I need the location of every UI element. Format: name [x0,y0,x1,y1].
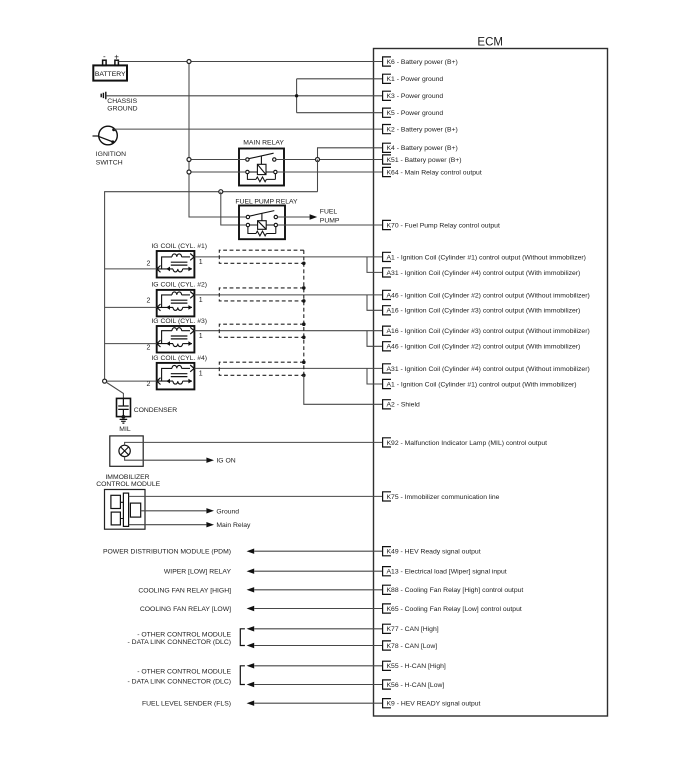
wire shield bus to A2 [304,375,383,404]
bracket DLC pair 1 [240,629,245,646]
wire relay output down [317,160,319,192]
node K51 junction [316,158,320,162]
wire coil 1 to A1 [194,256,382,258]
svg-text:CONDENSER: CONDENSER [134,407,178,414]
pin K9 bracket [383,699,391,708]
pin K51 bracket [383,155,391,164]
svg-text:1: 1 [199,297,203,304]
arrow COOLING FAN RELAY [LOW] [247,606,255,611]
pin K4 bracket [383,143,391,152]
coil 4 internals [157,365,194,385]
svg-text:A2 - Shield: A2 - Shield [387,402,420,409]
pin A1 bracket [383,252,391,261]
wire ignition feed bus [105,192,318,381]
svg-text:SWITCH: SWITCH [96,160,123,167]
coil 3 internals [157,327,194,347]
arrow CAN High [247,626,255,631]
pin K75 bracket [383,492,391,501]
svg-text:K49 - HEV Ready signal output: K49 - HEV Ready signal output [387,549,481,556]
svg-text:- OTHER CONTROL MODULE: - OTHER CONTROL MODULE [137,668,231,675]
svg-text:- DATA LINK CONNECTOR (DLC): - DATA LINK CONNECTOR (DLC) [128,639,231,646]
svg-text:K77 - CAN [High]: K77 - CAN [High] [387,626,439,633]
svg-text:A16 - Ignition Coil (Cylinder: A16 - Ignition Coil (Cylinder #3) contro… [387,328,590,335]
arrow FUEL LEVEL SENDER (FLS) [247,701,255,706]
node shield box 3 bottom [302,336,306,340]
ignition coil CYL 3 box [157,326,195,353]
shield box coil 2 [219,288,303,301]
svg-text:A16 - Ignition Coil (Cylinder: A16 - Ignition Coil (Cylinder #3) contro… [387,308,581,315]
wire FUEL LEVEL SENDER (FLS) to ECM [254,702,382,704]
wire coil 1 pin2 to bus [105,268,157,270]
svg-text:CONTROL MODULE: CONTROL MODULE [96,481,160,488]
svg-text:A46 - Ignition Coil (Cylinder: A46 - Ignition Coil (Cylinder #2) contro… [387,292,590,299]
wire coil 2 pin2 to bus [105,306,157,308]
pin K70 bracket [383,220,391,229]
svg-text:IG COIL (CYL. #4): IG COIL (CYL. #4) [151,355,207,362]
pin K56 bracket [383,680,391,689]
svg-text:2: 2 [147,381,151,388]
arrow POWER DISTRIBUTION MODULE (PDM) [247,549,255,554]
svg-text:WIPER [LOW] RELAY: WIPER [LOW] RELAY [164,569,232,576]
svg-text:IG COIL (CYL. #1): IG COIL (CYL. #1) [151,243,207,250]
relay FUEL PUMP RELAY box [239,206,285,240]
svg-text:A13 - Electrical load [Wiper]: A13 - Electrical load [Wiper] signal inp… [387,569,507,576]
svg-text:COOLING FAN RELAY [HIGH]: COOLING FAN RELAY [HIGH] [138,587,231,594]
shield box coil 1 [219,250,303,263]
svg-text:Ground: Ground [216,508,239,515]
svg-text:K51 - Battery power (B+): K51 - Battery power (B+) [387,157,462,164]
svg-text:K64 - Main Relay control outpu: K64 - Main Relay control output [387,169,482,176]
svg-text:IG COIL (CYL. #3): IG COIL (CYL. #3) [151,318,207,325]
pin A16 bracket [383,326,391,335]
svg-text:IMMOBILIZER: IMMOBILIZER [105,474,149,481]
svg-text:A1 - Ignition Coil (Cylinder #: A1 - Ignition Coil (Cylinder #1) control… [387,381,577,388]
wire branch to K1 [297,78,383,80]
immobilizer internals [111,493,141,526]
svg-text:2: 2 [147,260,151,267]
ignition switch [93,126,118,145]
svg-text:FUEL: FUEL [320,209,338,216]
svg-text:K5 - Power ground: K5 - Power ground [387,110,444,117]
MIL lamp symbol [119,445,130,456]
svg-text:A31 - Ignition Coil (Cylinder: A31 - Ignition Coil (Cylinder #4) contro… [387,270,581,277]
pin K65 bracket [383,604,391,613]
pin K49 bracket [383,547,391,556]
wire CAN High [254,628,382,630]
bracket DLC pair 2 [240,666,245,685]
shield box coil 4 [219,362,303,375]
pin K3 bracket [383,91,391,100]
wire coil 3 pin2 to bus [105,343,157,345]
svg-text:K65 - Cooling Fan Relay [Low]: K65 - Cooling Fan Relay [Low] control ou… [387,606,522,613]
svg-text:K75 - Immobilizer communicatio: K75 - Immobilizer communication line [387,494,500,501]
wire MIL to K92 [125,442,383,445]
wire coil 4 to A31 [194,367,382,369]
pin A46 bracket [383,290,391,299]
pin K64 bracket [383,167,391,176]
wire branch to A31 (with immo) [367,257,383,273]
wire branch to K5 [297,112,383,114]
arrow CAN Low [247,643,255,648]
svg-text:IG ON: IG ON [216,458,235,465]
wire battery+ to K6 [118,61,382,63]
pin A31 bracket [383,364,391,373]
wire bus to condenser [106,382,124,398]
svg-text:BATTERY: BATTERY [95,71,126,78]
wire MIL to IG ON [125,457,207,461]
pin K6 bracket [383,57,391,66]
pin K55 bracket [383,661,391,670]
arrow Main Relay [206,522,214,527]
svg-text:2: 2 [147,344,151,351]
wire WIPER [LOW] RELAY to ECM [254,570,382,572]
wire COOLING FAN RELAY [LOW] to ECM [254,608,382,610]
arrow WIPER [LOW] RELAY [247,569,255,574]
node shield box 2 bottom [302,299,306,303]
arrow IG ON [206,458,214,463]
pin K92 bracket [383,438,391,447]
svg-text:IGNITION: IGNITION [96,151,126,158]
pin K5 bracket [383,108,391,117]
node shield box 3 top [302,322,306,326]
svg-text:POWER DISTRIBUTION MODULE (PDM: POWER DISTRIBUTION MODULE (PDM) [103,549,231,556]
pin A31 bracket [383,268,391,277]
pin K2 bracket [383,125,391,134]
node fuel pump relay tap [219,190,223,194]
relay MAIN RELAY box [239,149,284,186]
svg-text:K4 - Battery power (B+): K4 - Battery power (B+) [387,145,458,152]
wire POWER DISTRIBUTION MODULE (PDM) to ECM [254,550,382,552]
arrow to fuel pump [310,214,318,219]
wire main relay out to K51 [276,159,383,161]
fuel pump relay internals [246,211,277,236]
svg-text:K56 - H-CAN [Low]: K56 - H-CAN [Low] [387,682,445,689]
node shield box 2 top [302,286,306,290]
svg-text:K92 - Malfunction Indicator La: K92 - Malfunction Indicator Lamp (MIL) c… [387,440,548,447]
pin K77 bracket [383,624,391,633]
svg-text:A46 - Ignition Coil (Cylinder: A46 - Ignition Coil (Cylinder #2) contro… [387,344,581,351]
wire immobilizer to K75 [129,495,383,497]
svg-text:GROUND: GROUND [107,105,137,112]
svg-text:A1 - Ignition Coil (Cylinder #: A1 - Ignition Coil (Cylinder #1) control… [387,254,586,261]
svg-text:MIL: MIL [119,426,131,433]
svg-text:+: + [114,52,119,61]
svg-text:1: 1 [199,259,203,266]
coil 1 internals [157,254,194,273]
node condenser ground [122,415,126,419]
svg-text:K88 - Cooling Fan Relay [High]: K88 - Cooling Fan Relay [High] control o… [387,587,524,594]
svg-text:FUEL PUMP RELAY: FUEL PUMP RELAY [235,198,298,205]
ECM module box [374,49,608,717]
main relay internals [246,153,277,182]
node shield box 1 bottom [302,262,306,266]
wire branch to A1 (with immo) [367,368,383,384]
wire CAN Low [254,645,382,647]
wire main relay feed bottom [189,171,246,173]
ignition coil CYL 1 box [157,251,195,278]
arrow H-CAN High [247,663,255,668]
wire immobilizer ground [141,510,207,512]
wire H-CAN Low [254,684,382,686]
wire immobilizer main relay [129,524,207,526]
coil 2 internals [157,292,194,311]
svg-text:- OTHER CONTROL MODULE: - OTHER CONTROL MODULE [137,631,231,638]
node shield box 4 bottom [302,374,306,378]
node main relay feed top [187,158,191,162]
pin A16 bracket [383,306,391,315]
node main relay feed bottom [187,170,191,174]
svg-text:1: 1 [199,333,203,340]
condenser [117,398,131,416]
pin K1 bracket [383,74,391,83]
node shield box 4 top [302,360,306,364]
svg-text:1: 1 [199,370,203,377]
wire main relay coil to K64 [276,171,383,173]
svg-text:A31 - Ignition Coil (Cylinder: A31 - Ignition Coil (Cylinder #4) contro… [387,366,590,373]
pin A2 bracket [383,400,391,409]
wire coil 3 to A16 [194,330,382,332]
pin K88 bracket [383,585,391,594]
battery [93,52,127,81]
svg-text:K6 - Battery power (B+): K6 - Battery power (B+) [387,59,458,66]
shield box coil 3 [219,324,303,337]
svg-text:K78 - CAN [Low]: K78 - CAN [Low] [387,643,438,650]
svg-text:Main Relay: Main Relay [216,522,251,529]
svg-text:PUMP: PUMP [320,217,340,224]
wire COOLING FAN RELAY [HIGH] to ECM [254,589,382,591]
svg-text:2: 2 [147,297,151,304]
svg-text:K1 - Power ground: K1 - Power ground [387,76,444,83]
svg-text:IG COIL (CYL. #2): IG COIL (CYL. #2) [151,282,207,289]
arrow COOLING FAN RELAY [HIGH] [247,587,255,592]
chassis ground symbol [101,92,106,100]
svg-text:- DATA LINK CONNECTOR (DLC): - DATA LINK CONNECTOR (DLC) [128,679,231,686]
MIL lamp box [110,436,143,466]
wire chassis ground to K3 [106,95,383,97]
node coil bus bottom [103,379,107,383]
svg-text:COOLING FAN RELAY [LOW]: COOLING FAN RELAY [LOW] [140,606,231,613]
wire K4 branch [318,148,383,160]
condenser ground symbol [120,419,128,423]
pin A46 bracket [383,342,391,351]
ignition coil CYL 4 box [157,363,195,390]
svg-text:-: - [103,52,106,61]
wire branch to A46 (with immo) [367,331,383,347]
wire H-CAN High [254,665,382,667]
pin A1 bracket [383,379,391,388]
ignition coil CYL 2 box [157,290,195,317]
wire fuel pump relay coil feed [221,192,246,225]
svg-text:CHASSIS: CHASSIS [107,98,137,105]
pin K78 bracket [383,641,391,650]
svg-text:K70 - Fuel Pump Relay control: K70 - Fuel Pump Relay control output [387,222,500,229]
immobilizer control module box [105,490,146,530]
arrow Ground [206,508,214,513]
shield bus dashed vertical [303,250,305,375]
node battery junction [187,60,191,64]
wire branch to A16 (with immo) [367,295,383,310]
arrow H-CAN Low [247,682,255,687]
pin A13 bracket [383,567,391,576]
wire fuel pump relay coil to K70 [278,224,383,226]
svg-text:K2 - Battery power (B+): K2 - Battery power (B+) [387,127,458,134]
wire ignition switch to K2 [114,128,383,130]
wire coil 4 pin2 to bus [105,380,157,382]
node ground junction [295,94,298,97]
wire battery vertical bus [189,62,248,218]
svg-text:MAIN RELAY: MAIN RELAY [243,139,284,146]
svg-text:FUEL LEVEL SENDER (FLS): FUEL LEVEL SENDER (FLS) [142,701,231,708]
wire main relay feed top [189,159,246,161]
svg-text:ECM: ECM [477,37,503,49]
svg-text:K9 - HEV READY signal output: K9 - HEV READY signal output [387,701,481,708]
svg-text:K55 - H-CAN [High]: K55 - H-CAN [High] [387,663,446,670]
svg-text:K3 - Power ground: K3 - Power ground [387,93,444,100]
wire ground branch vertical [296,79,298,113]
wire fuel pump relay switch out [278,216,310,218]
wire coil 2 to A46 [194,294,382,296]
